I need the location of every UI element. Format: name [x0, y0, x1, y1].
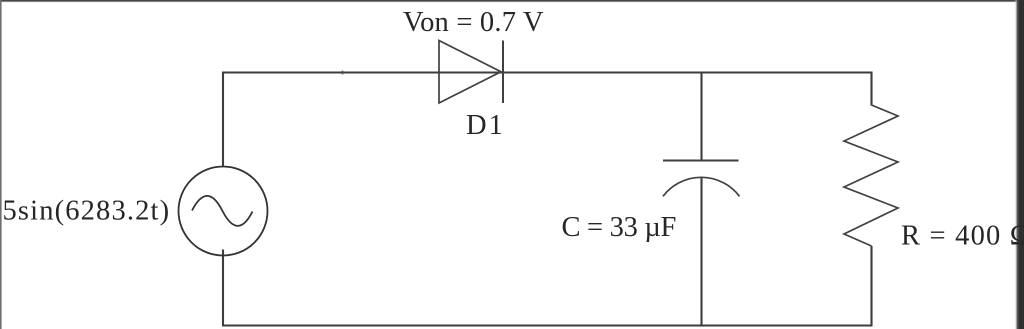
- frame edges (decorative): [0, 0, 1024, 3]
- wire resistor top stub: [870, 72, 872, 106]
- capacitor C curved plate: [663, 177, 740, 196]
- svg-text:Von = 0.7 V: Von = 0.7 V: [403, 7, 544, 38]
- AC source V1 circle: [179, 167, 268, 256]
- svg-text:5sin(6283.2t): 5sin(6283.2t): [3, 196, 171, 227]
- resistor R zigzag: [844, 105, 898, 246]
- wire top rail (source to resistor, through diode): [223, 73, 872, 167]
- svg-text:D1: D1: [466, 110, 505, 141]
- wire source bottom: [222, 250, 224, 326]
- diode D1 cathode bar: [502, 41, 504, 104]
- diode D1 triangle: [439, 41, 501, 104]
- capacitor C top plate: [663, 160, 739, 162]
- wire capacitor top branch: [700, 73, 702, 161]
- svg-text:R = 400 Ω: R = 400 Ω: [901, 221, 1024, 252]
- AC source sine wave: [192, 196, 253, 226]
- svg-text:C = 33 µF: C = 33 µF: [562, 212, 677, 243]
- wire capacitor bottom branch: [700, 178, 702, 326]
- wire junction nub: [342, 71, 344, 75]
- wire bottom rail: [222, 324, 873, 326]
- wire resistor bottom stub: [870, 246, 872, 326]
